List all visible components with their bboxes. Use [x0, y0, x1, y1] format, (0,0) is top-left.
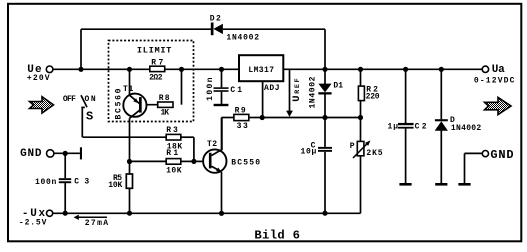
svg-text:2Ω2: 2Ω2 — [149, 74, 163, 83]
svg-text:220: 220 — [366, 92, 380, 101]
svg-text:10K: 10K — [108, 181, 122, 190]
svg-text:T1: T1 — [123, 85, 133, 94]
svg-text:ON: ON — [85, 95, 96, 104]
svg-text:27mA: 27mA — [85, 219, 109, 228]
svg-text:GND: GND — [20, 148, 42, 160]
svg-text:100n: 100n — [35, 178, 56, 187]
svg-text:1K: 1K — [161, 109, 170, 118]
svg-text:S: S — [86, 110, 93, 124]
svg-text:T2: T2 — [207, 140, 217, 149]
svg-text:10K: 10K — [166, 166, 182, 175]
svg-text:C1: C1 — [230, 86, 242, 95]
svg-text:BC560: BC560 — [114, 88, 123, 119]
svg-text:D2: D2 — [210, 14, 221, 23]
svg-text:10µ: 10µ — [301, 148, 317, 157]
svg-text:1N4002: 1N4002 — [309, 76, 318, 108]
svg-text:LM317: LM317 — [248, 66, 274, 75]
svg-text:BC550: BC550 — [231, 158, 260, 167]
svg-text:1µ: 1µ — [388, 122, 399, 131]
svg-text:ADJ: ADJ — [264, 84, 280, 93]
svg-text:Ua: Ua — [492, 64, 505, 76]
svg-text:ILIMIT: ILIMIT — [137, 46, 172, 56]
svg-text:GND: GND — [490, 148, 513, 162]
svg-text:R8: R8 — [159, 94, 170, 103]
svg-text:33: 33 — [237, 122, 248, 131]
svg-text:1N4002: 1N4002 — [226, 33, 259, 42]
svg-text:1N4002: 1N4002 — [451, 124, 481, 133]
svg-text:P: P — [350, 142, 355, 151]
svg-text:R3: R3 — [166, 126, 178, 135]
svg-text:+20V: +20V — [27, 74, 50, 83]
svg-text:OFF: OFF — [63, 95, 76, 104]
svg-text:2K5: 2K5 — [366, 149, 382, 158]
svg-text:-2.5V: -2.5V — [19, 218, 47, 227]
svg-text:D1: D1 — [333, 81, 343, 90]
svg-text:R9: R9 — [235, 107, 246, 116]
svg-text:100n: 100n — [206, 77, 215, 101]
svg-text:Bild 6: Bild 6 — [254, 229, 300, 243]
